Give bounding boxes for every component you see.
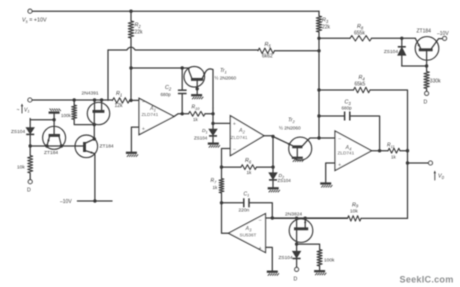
JFET 2N4391 — [87, 102, 109, 124]
node Tr1 base / ground — [196, 87, 199, 90]
wire gate bus to R9 — [272, 217, 347, 219]
ground D2 — [268, 187, 279, 189]
op-amp A3 SU536T (left facing) — [228, 214, 265, 253]
svg-text:680p: 680p — [342, 105, 353, 110]
node R3 bottom / R8 — [317, 37, 320, 40]
node base ZT184 / 330k — [425, 64, 428, 67]
node C2 top — [181, 66, 184, 69]
node 2N3824 source — [304, 217, 307, 220]
ground D1 — [208, 142, 219, 144]
svg-text:~: ~ — [17, 108, 20, 114]
svg-text:−: − — [338, 137, 341, 143]
node ground stem / diode branch — [52, 118, 55, 121]
svg-text:+: + — [259, 246, 262, 252]
resistor R7 — [221, 167, 223, 178]
svg-text:1k: 1k — [213, 185, 219, 190]
resistor 100k (gate pulldown) — [317, 250, 322, 267]
node R1/R2/A1- — [129, 99, 132, 102]
svg-text:ZS104: ZS104 — [279, 255, 293, 261]
svg-text:+: + — [142, 127, 145, 133]
wire main bias ladder vertical — [318, 38, 320, 138]
wire drain rail with hop over R2 lead — [108, 47, 258, 50]
label V1 with arrow — [21, 105, 23, 113]
transistor ZT184 Q1 — [43, 126, 66, 149]
svg-text:330k: 330k — [430, 79, 441, 85]
transistor Tr1 half 2N2060 — [184, 67, 205, 88]
svg-text:A3: A3 — [245, 226, 253, 232]
node 2N3824 drain — [295, 217, 298, 220]
svg-text:R9: R9 — [352, 202, 359, 208]
svg-text:R7: R7 — [211, 178, 218, 184]
svg-text:22k: 22k — [322, 25, 331, 31]
wire Tr1 emitter bus down to D1 — [212, 108, 214, 129]
svg-text:R10: R10 — [192, 105, 201, 111]
node R2/Tr1 collector branch — [129, 66, 132, 69]
svg-text:ZS104: ZS104 — [384, 49, 398, 55]
node gate / 100k — [93, 123, 96, 126]
svg-text:½ 2N2060: ½ 2N2060 — [279, 125, 301, 131]
svg-text:C1: C1 — [244, 191, 250, 197]
wire to A2 non-inverting — [213, 122, 230, 124]
wire to output terminal — [408, 162, 429, 164]
svg-text:100k: 100k — [61, 113, 72, 118]
resistor R2 — [130, 11, 132, 21]
wire diode branch — [30, 119, 54, 121]
svg-text:ZT184: ZT184 — [417, 29, 432, 35]
wire A2 output — [264, 135, 273, 137]
svg-text:−: − — [259, 218, 262, 224]
wire A4 output — [372, 150, 389, 152]
resistor 330k — [426, 66, 428, 72]
node top rail / R2 — [129, 10, 132, 13]
svg-text:ZT184: ZT184 — [44, 150, 58, 156]
node Q2 emitter to -10V — [93, 199, 96, 202]
terminal V0 — [429, 161, 433, 165]
node ladder/A4 inverting — [317, 136, 320, 139]
svg-text:R2: R2 — [135, 23, 142, 29]
capacitor C2 — [181, 68, 183, 90]
resistor R9 — [361, 217, 408, 219]
svg-text:2N3824: 2N3824 — [285, 212, 302, 218]
svg-text:10k: 10k — [17, 165, 25, 171]
node A1 output / C2 — [181, 112, 184, 115]
wire chopper emitter-collector run — [30, 145, 76, 147]
wire top +10V rail — [32, 10, 319, 12]
resistor R6 — [222, 166, 242, 168]
wire Tr2 collector to A4 inverting input — [308, 138, 335, 140]
terminal D (right) — [425, 91, 429, 95]
wire A4 non-inverting to ground — [326, 163, 335, 183]
svg-text:V1: V1 — [24, 108, 30, 114]
wire gate to 100k — [297, 244, 320, 249]
svg-text:655k: 655k — [354, 31, 365, 37]
resistor R3 — [318, 11, 320, 16]
svg-text:1k: 1k — [247, 170, 253, 175]
svg-text:+: + — [338, 163, 341, 169]
svg-text:65k5: 65k5 — [355, 81, 366, 87]
resistor R5 — [258, 48, 275, 53]
wire A1 + input to ground — [131, 127, 139, 152]
svg-text:A2: A2 — [238, 128, 246, 134]
wire Tr2 emitter from A2 output — [273, 137, 292, 146]
terminal D (gate drive) — [295, 267, 299, 271]
svg-text:ZS104: ZS104 — [194, 136, 208, 141]
resistor R4 — [319, 89, 354, 91]
wire drain rail drop to JFET — [107, 50, 109, 100]
svg-text:D: D — [294, 277, 298, 283]
node Q1 emitter — [45, 144, 48, 147]
terminal Vs — [28, 9, 32, 13]
resistor R11 — [388, 148, 400, 153]
svg-text:680p: 680p — [161, 92, 172, 97]
diode ZS104 (gate) — [293, 251, 301, 258]
svg-text:Tr2: Tr2 — [288, 118, 296, 124]
node ladder/C3 — [317, 114, 320, 117]
wire R2 to A1 inverting node (crosses drain rail) — [130, 38, 132, 100]
svg-text:Tr1: Tr1 — [220, 68, 227, 74]
ground A3 + — [267, 271, 278, 273]
wire input node to A1 inverting — [130, 99, 140, 101]
svg-text:100k: 100k — [324, 258, 335, 264]
svg-text:R11: R11 — [387, 143, 395, 149]
svg-text:–10V: –10V — [60, 199, 72, 205]
node R10 / bus — [211, 112, 214, 115]
svg-text:1k: 1k — [193, 117, 199, 122]
terminal -10V — [443, 36, 447, 40]
wire A2 inverting feedback — [222, 149, 231, 168]
node gate lead / Q2 collector — [93, 137, 96, 140]
wire -10V stub — [77, 200, 112, 202]
op-amp A4 ZLD741 — [335, 131, 372, 171]
ground A1 + — [126, 152, 137, 154]
op-amp A2 ZLD741 — [230, 116, 264, 156]
svg-text:−: − — [142, 100, 145, 106]
svg-text:R8: R8 — [357, 24, 364, 30]
svg-text:–10V: –10V — [437, 31, 449, 37]
transistor ZT184 Q2 — [75, 135, 98, 158]
wire V1 input run — [32, 99, 113, 101]
diode D1 ZS104 — [209, 129, 217, 135]
resistor R10 — [189, 111, 206, 116]
terminal V1 — [28, 98, 32, 102]
svg-text:−: − — [233, 147, 236, 153]
wire A3 inverting input — [266, 217, 273, 219]
ground (inverted) above ZT184 pair — [49, 111, 60, 113]
node A2- / R6 / R7 — [220, 165, 223, 168]
svg-text:10k: 10k — [350, 209, 358, 215]
ground Tr1 base — [191, 94, 202, 96]
terminal D (bottom left) — [28, 180, 32, 184]
wire ZS104 anode to Q base — [402, 65, 427, 67]
node JFET source — [100, 98, 103, 101]
node Q1 collector — [60, 144, 63, 147]
node diode cathode / chopper wire — [29, 144, 32, 147]
node C3 feedback / output — [378, 149, 381, 152]
diode ZS104 (upper right) — [401, 38, 403, 46]
diode ZS104 (input clamp) — [29, 119, 31, 128]
node ladder/R5 — [317, 49, 320, 52]
ground A4 + — [320, 182, 331, 184]
wire ground stem to Q1 base — [53, 113, 55, 135]
svg-text:R3: R3 — [322, 18, 329, 24]
svg-text:ZLD741: ZLD741 — [338, 150, 355, 155]
resistor R8 — [319, 37, 350, 39]
svg-text:22k: 22k — [135, 30, 144, 36]
transistor Tr2 half 2N2060 — [289, 137, 312, 160]
node V1 / 100k top — [73, 98, 76, 101]
transistor ZT184 (top right) Q3 — [415, 37, 439, 61]
svg-text:ZLD741: ZLD741 — [231, 135, 248, 140]
svg-text:V0: V0 — [438, 174, 445, 180]
node ladder/R4 — [317, 88, 320, 91]
svg-text:ZS104: ZS104 — [278, 178, 292, 183]
wire A3 non-inverting to ground — [266, 247, 273, 271]
diode D2 ZS104 — [269, 173, 277, 180]
svg-text:1k: 1k — [391, 155, 397, 160]
wire A1 output — [174, 114, 189, 117]
svg-text:ZLD741: ZLD741 — [142, 112, 159, 117]
resistor 100k (input attenuator) — [73, 100, 75, 105]
svg-text:ZT184: ZT184 — [100, 144, 114, 150]
svg-text:2N4391: 2N4391 — [82, 91, 99, 97]
svg-text:+: + — [233, 122, 236, 128]
wire Tr1 collector branch — [131, 67, 189, 69]
svg-text:½ 2N2060: ½ 2N2060 — [215, 75, 237, 81]
svg-text:R1: R1 — [116, 91, 122, 97]
svg-text:12k: 12k — [115, 103, 124, 109]
svg-text:R6: R6 — [245, 158, 252, 164]
wire A2 output bus down — [272, 137, 274, 173]
ground 100k — [314, 270, 325, 272]
wire output bus vertical — [407, 149, 409, 219]
svg-text:D: D — [27, 188, 31, 194]
node R6 / D2 — [271, 165, 274, 168]
svg-text:R5: R5 — [265, 42, 272, 48]
resistor 10k (bottom left) — [28, 156, 33, 174]
node output / R11 — [406, 149, 409, 152]
svg-text:C2: C2 — [165, 85, 172, 91]
node A2 + branch — [211, 122, 214, 125]
op-amp A1 ZLD741 — [139, 98, 174, 134]
node output / V0 branch — [406, 161, 409, 164]
label V0 with arrow — [434, 172, 436, 180]
svg-text:6k62: 6k62 — [262, 54, 273, 60]
ground Tr2 base — [292, 157, 303, 159]
node A3- / C1 / gate bus — [271, 216, 274, 219]
svg-text:SU536T: SU536T — [240, 233, 257, 238]
JFET 2N3824 — [289, 219, 313, 243]
svg-text:D: D — [424, 100, 428, 106]
node R7 / C1 branch — [220, 201, 223, 204]
svg-text:ZS104: ZS104 — [11, 129, 25, 135]
resistor R1 — [113, 98, 130, 103]
svg-text:Vs = +10V: Vs = +10V — [22, 18, 47, 24]
capacitor C3 — [319, 115, 344, 117]
capacitor C1 — [222, 202, 244, 204]
svg-text:220n: 220n — [239, 208, 250, 214]
node gate / 100k branch — [295, 242, 298, 245]
node JFET drain — [93, 98, 96, 101]
node A2 output / D2 bus — [271, 135, 274, 138]
svg-text:SeekIC.com: SeekIC.com — [400, 274, 454, 284]
node R8 / ZS104 cathode — [400, 37, 403, 40]
